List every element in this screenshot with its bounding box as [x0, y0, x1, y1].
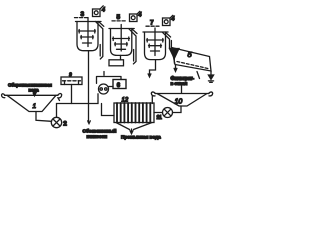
agitator tank 3: [76, 18, 102, 51]
label 3: [75, 11, 89, 18]
svg-text:4: 4: [171, 17, 175, 23]
classifier 5: [172, 48, 212, 79]
vacuum filter 12: [114, 103, 154, 123]
svg-text:1: 1: [33, 103, 37, 110]
wire: thickener 10 underflow: [173, 106, 182, 113]
svg-text:Обезвоженный: Обезвоженный: [83, 127, 117, 133]
svg-text:2: 2: [63, 120, 67, 127]
label 5: [112, 14, 126, 21]
wire: pump 2 discharge header: [57, 94, 99, 118]
thickener 10: [151, 92, 212, 106]
feed label (slurry water): [8, 81, 52, 96]
svg-text:9: 9: [69, 72, 72, 78]
svg-text:11: 11: [157, 115, 163, 121]
wire: thickener 1 underflow: [36, 112, 51, 122]
svg-text:вода: вода: [29, 87, 40, 92]
svg-text:4: 4: [102, 8, 106, 14]
box 6: [113, 80, 126, 90]
feed funnel into classifier: [170, 49, 180, 64]
svg-text:5: 5: [117, 14, 121, 21]
wire: tank 5 underflow: [120, 55, 122, 59]
svg-text:4: 4: [138, 13, 142, 19]
pump 2: [51, 117, 67, 127]
pump 7: [99, 84, 114, 94]
pump 11: [154, 108, 173, 122]
filter discharge legs: [116, 123, 152, 134]
wire: thickener 10 overflow drain: [151, 97, 153, 104]
svg-text:5: 5: [188, 50, 193, 59]
distributor box 9: [61, 72, 82, 84]
agitator tank 5: [109, 25, 134, 56]
standpipe (tank 3 overflow): [96, 22, 104, 60]
svg-text:12: 12: [122, 98, 129, 104]
wire: tank 7 underflow with arrow: [150, 60, 156, 76]
wire: feed to thickener 10: [181, 86, 183, 93]
label 7: [146, 20, 159, 27]
motor 4 (tank 7): [163, 15, 176, 25]
seal box under tank 5: [109, 60, 124, 66]
agitator tank 7: [143, 28, 168, 60]
standpipe (tank 7 overflow): [162, 32, 171, 48]
wire: tank 3 underflow / cake line down to label: [88, 51, 90, 123]
svg-text:10: 10: [175, 99, 183, 106]
motor 4 (tank 5): [130, 11, 143, 21]
svg-text:7: 7: [150, 20, 154, 27]
filtrate label: [171, 76, 195, 87]
thickener 1: [2, 93, 62, 111]
wire: header to filter feed: [102, 104, 115, 116]
svg-text:глинозем: глинозем: [87, 134, 108, 139]
wire: distributor drop: [71, 85, 73, 104]
standpipe (tank 5 overflow): [129, 29, 137, 64]
wire: tanks underflow header to pump 7 and box 6: [97, 77, 122, 84]
tailings discharge arrow (в отвал): [208, 71, 213, 82]
svg-text:в отвал: в отвал: [171, 82, 188, 87]
svg-text:Промывная вода: Промывная вода: [121, 135, 161, 141]
label: dewatered product: [83, 127, 117, 139]
motor 4 (tank 3): [93, 6, 106, 17]
wire: classifier sands down with arrow: [174, 65, 177, 72]
